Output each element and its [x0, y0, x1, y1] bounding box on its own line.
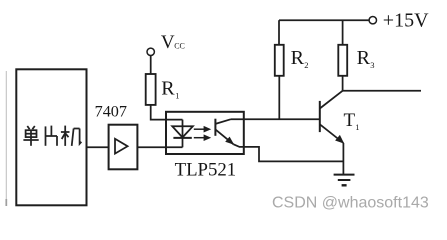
Vcc terminal [147, 48, 154, 55]
T1 emitter [320, 124, 344, 143]
resistor R1 [146, 74, 156, 105]
wire: collector node to right edge [343, 90, 421, 92]
phototransistor emitter [215, 129, 233, 144]
svg-text:7407: 7407 [95, 103, 127, 121]
ground symbol [334, 175, 355, 186]
svg-text:T: T [344, 110, 356, 131]
resistor R3 [338, 45, 347, 76]
T1 collector [320, 91, 343, 109]
+15V terminal [369, 17, 376, 24]
wire: microcontroller to 7407 input [87, 146, 109, 148]
emitter arrowhead [225, 137, 234, 145]
svg-text:1: 1 [175, 91, 179, 101]
light arrow lower [194, 134, 211, 141]
wire: emitter down to ground [342, 143, 344, 175]
+15V rail [279, 19, 369, 21]
svg-text:CSDN @whaosoft143: CSDN @whaosoft143 [272, 195, 429, 212]
单 [23, 126, 38, 146]
light arrow upper [194, 126, 211, 133]
机 [61, 126, 82, 146]
buffer triangle [115, 139, 128, 154]
wire: R3 to collector node [342, 76, 344, 91]
LED triangle [172, 126, 193, 137]
phototransistor base bar [214, 119, 216, 136]
svg-text:CC: CC [174, 42, 185, 51]
T1 emitter arrowhead [335, 135, 344, 144]
microcontroller box 单片机 [16, 69, 86, 205]
片 [46, 126, 58, 146]
svg-text:TLP521: TLP521 [175, 160, 237, 181]
phototransistor collector [215, 119, 231, 124]
transistor T1 base bar [319, 101, 321, 132]
svg-text:R: R [357, 47, 371, 69]
wire: 7407 output to LED cathode [137, 146, 182, 148]
wire: rail to R2 [278, 20, 280, 45]
svg-text:R: R [161, 78, 175, 100]
wire: opto collector to T1 base (node with R2) [231, 118, 320, 120]
buffer U1 7407 box [109, 125, 138, 170]
wire: opto emitter out [234, 144, 344, 161]
stray faint scan line at left edge [5, 71, 7, 206]
LED lead [182, 120, 184, 148]
svg-text:R: R [291, 47, 305, 69]
svg-text:V: V [161, 32, 175, 53]
wire: rail to R3 [342, 20, 344, 45]
resistor R2 [275, 45, 284, 76]
wire: Vcc to R1 [150, 56, 152, 75]
label 单片机 (hand-drawn CJK strokes) [23, 126, 81, 146]
optocoupler TLP521 box [166, 112, 244, 154]
svg-text:+15V: +15V [383, 10, 429, 32]
svg-text:3: 3 [370, 60, 374, 70]
wire: R2 to base node [278, 76, 280, 119]
wire: R1 to LED anode [151, 105, 183, 120]
svg-text:1: 1 [355, 122, 359, 132]
svg-text:2: 2 [304, 60, 308, 70]
LED cathode bar [173, 137, 191, 139]
